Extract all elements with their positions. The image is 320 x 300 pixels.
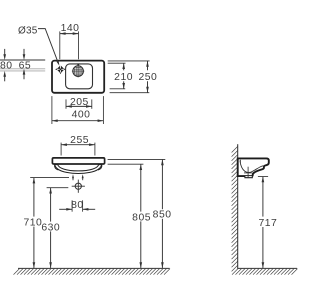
plan view: tap hole symbol	[55, 65, 66, 75]
leader line for tap hole	[38, 29, 59, 66]
dimension 80 arrows	[3, 49, 6, 81]
front view: right rim curl	[98, 165, 102, 170]
svg-text:Ø35: Ø35	[18, 26, 38, 37]
svg-text:210: 210	[114, 72, 133, 83]
svg-text:805: 805	[132, 213, 151, 224]
dimension 805	[132, 164, 151, 268]
grey extension line (65 level)	[0, 68, 45, 70]
plan view: drain strainer	[72, 64, 84, 77]
side view: bowl interior line	[240, 160, 264, 172]
right extension line bottom (210 level)	[110, 88, 126, 90]
svg-text:80: 80	[0, 60, 13, 71]
side view: wall hatching	[232, 147, 238, 272]
dimension 205	[66, 97, 92, 109]
dimension 250	[138, 61, 157, 93]
side view: floor hatching	[232, 269, 298, 275]
side view: drain stub	[245, 176, 252, 178]
dimension 710	[23, 178, 69, 269]
front view: right fixing mark	[82, 174, 84, 180]
svg-text:630: 630	[41, 223, 60, 234]
front view: left fixing mark	[72, 174, 74, 180]
dimension 400	[52, 96, 104, 124]
dimension 210	[114, 63, 133, 89]
right extension line top (210 level)	[108, 62, 126, 64]
dimension 140	[60, 23, 80, 59]
grey extension line (80 level)	[0, 70, 45, 72]
front view: bowl underside band	[55, 165, 102, 174]
dimension 255	[61, 135, 95, 156]
plan view: bowl inner outline	[66, 64, 93, 89]
front view: drain crosshair	[72, 180, 85, 193]
svg-text:205: 205	[70, 97, 89, 108]
extension line 805 level	[108, 163, 144, 165]
front view: left rim curl	[55, 165, 59, 170]
svg-text:80: 80	[71, 200, 84, 211]
extension line 850 level	[108, 158, 166, 160]
dimension 65 arrows	[23, 49, 26, 79]
svg-text:850: 850	[153, 210, 172, 221]
front view: floor line	[18, 267, 170, 269]
front view: floor hatching	[14, 269, 171, 275]
front view: basin slab	[52, 158, 104, 164]
side view: drain crosshair	[244, 167, 252, 178]
side view: wall line	[237, 144, 239, 269]
svg-text:255: 255	[70, 135, 89, 146]
dimension 80/65 reference line (top edge)	[0, 59, 45, 61]
right extension line top (250 level)	[108, 60, 150, 62]
side view: back edge tick	[239, 160, 241, 163]
svg-text:250: 250	[138, 72, 157, 83]
dimension 630	[41, 188, 68, 268]
side view: floor line	[238, 267, 297, 269]
svg-text:710: 710	[23, 217, 42, 228]
svg-text:400: 400	[72, 110, 91, 121]
svg-text:65: 65	[19, 60, 32, 71]
dimension 80 (bottom fixing)	[59, 200, 95, 212]
svg-text:717: 717	[258, 218, 277, 229]
right extension line bottom (250 level)	[110, 92, 150, 94]
dimension 717	[258, 177, 277, 269]
side view: basin profile	[238, 158, 269, 176]
dimension 850	[153, 159, 172, 268]
plan view: basin outer rim	[52, 61, 104, 93]
svg-text:140: 140	[61, 23, 80, 34]
plan view: overflow triangle	[76, 64, 80, 66]
